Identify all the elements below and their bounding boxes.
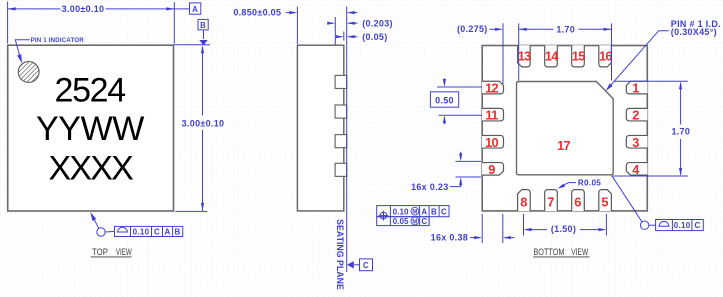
side view package body outline bbox=[297, 45, 343, 211]
svg-text:C: C bbox=[695, 221, 701, 230]
pad 9 bbox=[482, 163, 504, 176]
svg-text:7: 7 bbox=[547, 194, 554, 209]
pin number 9 bbox=[488, 162, 495, 177]
pin number 15 bbox=[572, 48, 585, 63]
svg-text:XXXX: XXXX bbox=[49, 149, 134, 187]
svg-text:3: 3 bbox=[632, 135, 639, 150]
pad 12 bbox=[482, 81, 504, 94]
pin number 12 bbox=[485, 81, 498, 96]
pad 5 bbox=[599, 190, 612, 212]
svg-text:C: C bbox=[363, 261, 369, 270]
pad pitch dimension 0.50 bbox=[430, 78, 481, 124]
svg-text:YYWW: YYWW bbox=[36, 110, 144, 148]
seating plane line bbox=[346, 7, 348, 273]
svg-text:A: A bbox=[421, 207, 427, 216]
svg-text:16x 0.38: 16x 0.38 bbox=[431, 233, 468, 243]
pin 1 ID note bbox=[606, 19, 721, 91]
svg-text:0.50: 0.50 bbox=[435, 95, 454, 105]
svg-text:1.70: 1.70 bbox=[671, 127, 690, 137]
svg-text:(1.50): (1.50) bbox=[551, 224, 576, 234]
svg-text:4: 4 bbox=[632, 162, 640, 177]
svg-text:1.70: 1.70 bbox=[556, 25, 575, 35]
svg-text:B: B bbox=[175, 228, 181, 237]
svg-text:B: B bbox=[200, 21, 206, 30]
svg-text:3.00±0.10: 3.00±0.10 bbox=[62, 4, 105, 14]
package height dimension 0.850±0.05 bbox=[233, 7, 357, 45]
svg-text:8: 8 bbox=[520, 194, 527, 209]
svg-text:C: C bbox=[154, 228, 160, 237]
pin number 6 bbox=[574, 194, 581, 209]
svg-text:0.10: 0.10 bbox=[674, 221, 691, 230]
lead edge extension line bbox=[334, 17, 336, 45]
pad 4 bbox=[626, 163, 647, 176]
pin number 7 bbox=[547, 194, 554, 209]
svg-text:A: A bbox=[164, 228, 170, 237]
svg-text:VIEW: VIEW bbox=[116, 247, 132, 257]
svg-text:1: 1 bbox=[632, 81, 639, 96]
position tolerance frame 0.10(M)|A|B|C / 0.05(M)|C bbox=[377, 206, 449, 226]
svg-text:(0.05): (0.05) bbox=[362, 32, 387, 42]
TOP VIEW title bbox=[91, 247, 133, 257]
pad 15 bbox=[572, 45, 585, 67]
svg-text:5: 5 bbox=[601, 194, 608, 209]
pin number 3 bbox=[632, 135, 639, 150]
BOTTOM VIEW title bbox=[533, 247, 589, 257]
svg-text:PIN 1 INDICATOR: PIN 1 INDICATOR bbox=[31, 37, 85, 44]
svg-text:0.850±0.05: 0.850±0.05 bbox=[233, 7, 281, 17]
standoff extension line bbox=[343, 32, 345, 41]
pin 1 indicator label and leader bbox=[15, 37, 84, 63]
svg-text:(0.30X45°): (0.30X45°) bbox=[671, 27, 717, 37]
pin number 8 bbox=[520, 194, 527, 209]
svg-text:BOTTOM: BOTTOM bbox=[533, 247, 564, 257]
profile tolerance leader (top view) bbox=[90, 212, 114, 236]
center pad height dimension 1.70 (right) bbox=[612, 81, 691, 176]
svg-text:16x 0.23: 16x 0.23 bbox=[411, 182, 448, 192]
pin number 11 bbox=[485, 108, 498, 123]
svg-text:10: 10 bbox=[485, 135, 498, 150]
pin number 17 bbox=[557, 138, 570, 153]
svg-text:(0.275): (0.275) bbox=[457, 24, 488, 34]
marking text line 3 (XXXX) bbox=[49, 149, 134, 187]
top edge extension line (right) bbox=[174, 44, 211, 46]
feature control frame (bottom view) 0.10|C bbox=[656, 220, 704, 231]
pin 1 indicator hatched circle bbox=[18, 62, 39, 83]
datum C symbol (seating plane) bbox=[347, 259, 373, 271]
svg-text:11: 11 bbox=[485, 108, 498, 123]
pad 3 bbox=[626, 135, 647, 148]
top view width dimension 3.00±0.10 bbox=[8, 2, 190, 44]
exposed center pad 17 with pin-1 chamfer bbox=[517, 82, 614, 175]
pad 13 bbox=[518, 45, 531, 67]
feature control frame (top view) 0.10|C|A|B bbox=[115, 226, 183, 236]
pad 7 bbox=[545, 190, 558, 212]
svg-text:9: 9 bbox=[488, 162, 495, 177]
side view terminal lead 4 bbox=[335, 163, 347, 176]
side view terminal lead 3 bbox=[335, 135, 347, 148]
bottom view package body outline bbox=[482, 46, 647, 211]
svg-text:16: 16 bbox=[599, 48, 612, 63]
marking text line 2 (YYWW) bbox=[36, 110, 144, 148]
svg-text:VIEW: VIEW bbox=[571, 247, 588, 257]
pad span dimension (1.50) bbox=[524, 214, 607, 236]
datum B symbol bbox=[198, 19, 208, 45]
pin number 13 bbox=[518, 48, 531, 63]
pin number 10 bbox=[485, 135, 498, 150]
svg-text:B: B bbox=[431, 207, 437, 216]
svg-text:15: 15 bbox=[572, 48, 585, 63]
pad 10 bbox=[482, 135, 504, 148]
standoff dimension (0.05) bbox=[336, 32, 388, 42]
svg-text:6: 6 bbox=[574, 194, 581, 209]
pad width dimension 16x 0.23 bbox=[411, 152, 481, 192]
svg-text:R0.05: R0.05 bbox=[578, 179, 601, 188]
side view terminal lead 2 bbox=[335, 105, 347, 118]
svg-text:13: 13 bbox=[518, 48, 531, 63]
pin number 2 bbox=[632, 108, 639, 123]
pin number 14 bbox=[545, 48, 559, 63]
svg-text:(0.203): (0.203) bbox=[362, 18, 393, 28]
svg-text:0.10: 0.10 bbox=[393, 207, 409, 216]
top view height dimension 3.00±0.10 bbox=[182, 45, 225, 211]
svg-text:M: M bbox=[412, 210, 417, 216]
svg-text:17: 17 bbox=[557, 138, 570, 153]
svg-text:TOP: TOP bbox=[92, 247, 108, 257]
svg-text:0.10: 0.10 bbox=[133, 228, 150, 237]
svg-text:0.05: 0.05 bbox=[393, 217, 409, 226]
marking text line 1 (2524) bbox=[54, 72, 125, 110]
pad 1 bbox=[626, 81, 647, 94]
pin number 5 bbox=[601, 194, 608, 209]
pin number 16 bbox=[599, 48, 612, 63]
svg-text:2: 2 bbox=[632, 108, 639, 123]
bottom edge extension line (top view) bbox=[175, 210, 207, 212]
pad 16 bbox=[599, 45, 612, 67]
top view package body outline bbox=[8, 45, 174, 211]
pad 14 bbox=[545, 45, 558, 67]
datum A symbol bbox=[190, 3, 201, 14]
SEATING PLANE label bbox=[335, 219, 345, 290]
lead thickness dimension (0.203) bbox=[327, 18, 393, 28]
pad 6 bbox=[572, 190, 585, 212]
corner radius note R0.05 bbox=[558, 179, 602, 189]
svg-text:SEATING PLANE: SEATING PLANE bbox=[335, 219, 345, 290]
pad length dimension 16x 0.38 bbox=[431, 214, 515, 243]
svg-text:2524: 2524 bbox=[54, 72, 125, 110]
pad 11 bbox=[482, 108, 504, 121]
svg-text:3.00±0.10: 3.00±0.10 bbox=[182, 118, 225, 128]
svg-text:A: A bbox=[192, 5, 198, 14]
svg-text:12: 12 bbox=[485, 81, 498, 96]
pad 2 bbox=[626, 108, 647, 121]
svg-text:M: M bbox=[412, 219, 417, 225]
pad 8 bbox=[518, 190, 531, 212]
side view terminal lead 1 bbox=[335, 75, 347, 88]
svg-text:14: 14 bbox=[545, 48, 559, 63]
pin number 1 bbox=[632, 81, 639, 96]
pin number 4 bbox=[632, 162, 640, 177]
profile tolerance leader (bottom view) bbox=[612, 176, 655, 229]
svg-text:C: C bbox=[421, 217, 427, 226]
svg-text:C: C bbox=[441, 207, 447, 216]
center pad width dimension 1.70 (top) bbox=[519, 23, 612, 80]
pad row offset dimension (0.275) bbox=[457, 23, 503, 84]
